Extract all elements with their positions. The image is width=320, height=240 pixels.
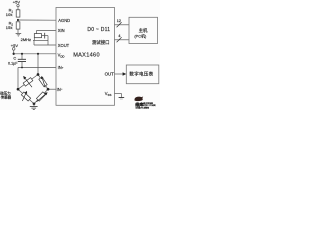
- resistor bridge bottom-left: [21, 92, 30, 101]
- arrow gauge bottom-right: [37, 92, 48, 102]
- svg-text:数字电压表: 数字电压表: [129, 71, 153, 78]
- bridge arm top-left: [18, 75, 38, 90]
- bridge arm bottom-left: [18, 89, 34, 104]
- svg-text:10k: 10k: [6, 12, 13, 17]
- svg-text:IN−: IN−: [57, 87, 63, 92]
- wire AGND: [18, 19, 56, 21]
- resistor R2: [6, 21, 20, 31]
- bus test interface: [115, 34, 130, 42]
- arrow gauge bottom-left: [22, 91, 27, 101]
- wire bridge top riser: [37, 54, 39, 75]
- resistor R1: [6, 8, 20, 18]
- arrow gauge top-left: [23, 76, 32, 87]
- resistor bridge top-left: [23, 78, 33, 87]
- bridge arm bottom-right: [34, 89, 48, 104]
- watermark logo: [134, 97, 155, 110]
- node cap on rail: [21, 53, 23, 55]
- svg-text:4: 4: [118, 34, 120, 38]
- svg-text:0.1µF: 0.1µF: [8, 62, 18, 66]
- power +5V top: [13, 0, 21, 10]
- svg-text:测试接口: 测试接口: [92, 39, 110, 46]
- arrow gauge top-right: [41, 76, 45, 88]
- ground (VSS): [119, 98, 125, 100]
- svg-text:C: C: [13, 56, 16, 61]
- node bridge left: [17, 88, 20, 91]
- svg-text:+5V: +5V: [13, 0, 21, 5]
- wire IN+ from bridge left corner: [18, 67, 56, 90]
- wire VSS: [115, 94, 122, 98]
- svg-text:全球最大IC采购网: 全球最大IC采购网: [135, 106, 149, 109]
- svg-text:XIN: XIN: [58, 28, 65, 33]
- block digital voltmeter: [126, 65, 159, 84]
- capacitor C 0.1u: [8, 54, 26, 68]
- bridge arm top-right: [38, 75, 48, 90]
- label silicon pressure sensor: [0, 91, 11, 100]
- node bridge bottom: [33, 102, 36, 105]
- svg-text:XOUT: XOUT: [58, 43, 70, 48]
- svg-text:MAX1460: MAX1460: [73, 52, 100, 58]
- svg-text:传感器: 传感器: [1, 95, 12, 100]
- svg-text:AGND: AGND: [58, 18, 70, 23]
- svg-text:VSS: VSS: [105, 91, 112, 97]
- ground (below R2): [16, 29, 22, 36]
- node bridge top: [37, 73, 40, 76]
- svg-text:+5V: +5V: [11, 43, 19, 48]
- node A (R1/R2 junction to AGND): [17, 19, 19, 21]
- IC U1 MAX1460: [56, 8, 115, 106]
- svg-text:IN+: IN+: [58, 65, 64, 70]
- bus D0-D11: [115, 19, 130, 27]
- svg-text:VDD: VDD: [58, 52, 65, 58]
- svg-text:2MHz: 2MHz: [21, 37, 31, 42]
- block host PC: [129, 17, 158, 43]
- svg-text:(PC机): (PC机): [134, 33, 147, 38]
- wire IN- from bridge right corner: [48, 88, 56, 90]
- ground (bridge bottom): [30, 104, 38, 110]
- svg-text:D0 ~ D11: D0 ~ D11: [87, 27, 110, 33]
- node bridge right: [47, 88, 50, 91]
- svg-text:12: 12: [117, 19, 121, 23]
- node bridge riser on rail: [37, 53, 39, 55]
- svg-text:15k: 15k: [6, 25, 13, 30]
- resistor bridge top-right: [39, 77, 47, 87]
- wire XOUT: [34, 44, 56, 46]
- wire VDD rail: [14, 53, 56, 55]
- svg-text:OUT: OUT: [105, 72, 115, 77]
- power +5V rail: [11, 43, 19, 55]
- crystal Y1 2MHz: [21, 31, 56, 46]
- resistor bridge bottom-right: [36, 92, 45, 101]
- wire OUT with arrow: [115, 72, 127, 76]
